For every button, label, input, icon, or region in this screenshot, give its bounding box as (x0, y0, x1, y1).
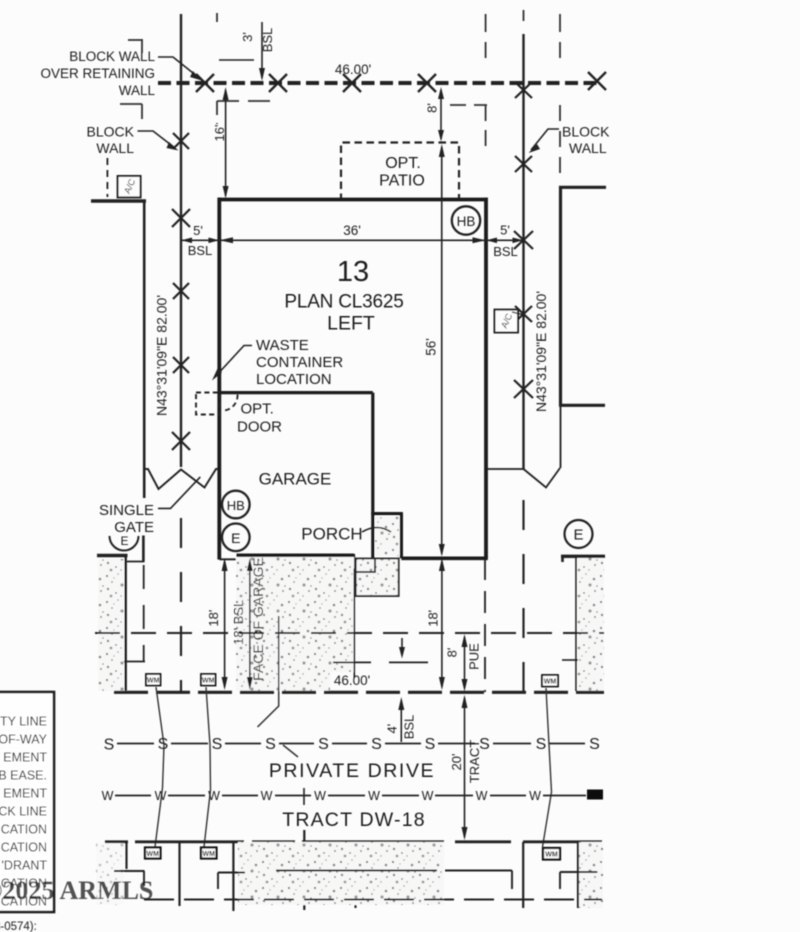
svg-text:S: S (265, 736, 276, 753)
A/C unit left (106, 158, 108, 197)
house outline lot 13 (218, 198, 488, 569)
svg-text:BLOCK: BLOCK (87, 124, 135, 140)
svg-text:CONTAINER: CONTAINER (256, 354, 343, 371)
svg-text:WM: WM (545, 852, 558, 859)
svg-text:S: S (589, 736, 600, 753)
svg-text:13: 13 (337, 256, 369, 288)
svg-text:S: S (212, 736, 223, 753)
5' BSL dimension right (486, 239, 524, 241)
far side inner walls (114, 871, 597, 890)
svg-text:46.00': 46.00' (335, 62, 371, 77)
svg-text:W: W (208, 789, 220, 803)
left neighbour house wall (91, 199, 146, 202)
svg-text:OPT.: OPT. (241, 401, 274, 418)
right block wall on lot line (522, 34, 524, 469)
svg-text:BSL: BSL (188, 243, 213, 258)
svg-text:CK LINE: CK LINE (0, 805, 47, 819)
water line W (115, 795, 586, 797)
A/C unit right (495, 310, 519, 333)
water meter service leaders (155, 687, 164, 847)
svg-text:DOOR: DOOR (237, 419, 282, 436)
18' dimension (garage) (224, 561, 226, 687)
hose bib circle top right (452, 206, 480, 234)
svg-text:W: W (261, 789, 273, 803)
svg-text:36': 36' (343, 223, 361, 238)
driveway east edge (353, 569, 355, 679)
svg-text:8-0574):: 8-0574): (0, 921, 37, 932)
corner tick dashes (right neighbour lot) (450, 14, 560, 180)
svg-text:OPT.: OPT. (385, 155, 421, 172)
svg-text:PORCH: PORCH (301, 525, 362, 544)
svg-text:WM: WM (146, 851, 159, 858)
lot line dashes below left gate (180, 518, 182, 691)
svg-text:N43°31'09"E 82.00': N43°31'09"E 82.00' (154, 295, 170, 416)
svg-text:WALL: WALL (569, 140, 607, 156)
legend box (clipped at left edge) (0, 692, 54, 912)
svg-text:EMENT: EMENT (3, 751, 47, 765)
svg-text:HB: HB (457, 214, 476, 229)
right neighbour house (559, 186, 562, 406)
far side lot walls (127, 830, 579, 911)
dashed projection of house face (right) (484, 558, 486, 692)
rear property line / block wall over retaining wall (158, 81, 601, 85)
entry stoop steps (356, 559, 399, 597)
gate / wall connection (right) (487, 468, 524, 470)
svg-text:PUE: PUE (467, 643, 482, 670)
porch outline (371, 512, 403, 515)
svg-text:CATION: CATION (1, 823, 47, 837)
sewer service leader (258, 616, 279, 727)
svg-text:E: E (573, 527, 583, 544)
8' dimension (patio to rear wall) (440, 90, 442, 139)
svg-text:GARAGE: GARAGE (259, 470, 332, 489)
left frontage wall (97, 554, 128, 557)
svg-text:W: W (529, 789, 541, 803)
svg-text:E: E (120, 534, 128, 548)
svg-text:S: S (425, 736, 436, 753)
svg-text:LEFT: LEFT (327, 313, 375, 335)
svg-text:EMENT: EMENT (3, 787, 47, 801)
water meter boxes at frontage (146, 674, 558, 687)
driveway concrete stipple (236, 557, 354, 691)
svg-text:WASTE: WASTE (256, 337, 309, 354)
front wall (401, 556, 487, 560)
svg-text:WM: WM (147, 678, 160, 685)
right sidewalk stipple strip (578, 558, 605, 691)
svg-text:LOCATION: LOCATION (256, 371, 332, 388)
E circle at garage (222, 524, 250, 552)
far side lots frontage line (105, 840, 602, 843)
svg-text:S: S (371, 736, 382, 753)
18' BSL dimension (249, 561, 251, 687)
door swing arc (224, 395, 238, 411)
E symbol circle (right) (565, 520, 593, 548)
svg-text:BSL: BSL (260, 28, 275, 53)
svg-text:BSL: BSL (493, 244, 518, 259)
hose bib circle at garage (222, 491, 250, 519)
svg-text:S: S (536, 736, 547, 753)
svg-text:8': 8' (445, 648, 460, 658)
svg-text:5': 5' (500, 223, 510, 238)
svg-text:S: S (318, 736, 329, 753)
svg-text:W: W (314, 789, 326, 803)
thrust block on water line (587, 790, 603, 800)
svg-text:WM: WM (544, 679, 557, 686)
svg-text:5': 5' (193, 223, 203, 238)
svg-text:46.00': 46.00' (334, 673, 370, 688)
svg-text:16': 16' (212, 125, 227, 142)
left block wall on lot line (180, 14, 182, 467)
garage face (237, 553, 355, 557)
5' BSL dimension left (181, 239, 219, 241)
svg-text:PATIO: PATIO (379, 173, 425, 190)
front lot line (114, 691, 604, 694)
svg-text:W: W (476, 789, 488, 803)
lot line dashes below right gate (522, 500, 524, 692)
right frontage wall (561, 555, 605, 558)
svg-text:BLOCK: BLOCK (562, 124, 610, 140)
svg-text:PLAN CL3625: PLAN CL3625 (284, 292, 403, 313)
svg-text:S: S (104, 737, 115, 754)
svg-text:SINGLE: SINGLE (99, 502, 154, 519)
optional door dashed box (196, 393, 219, 415)
svg-text:20': 20' (449, 754, 464, 771)
svg-text:FACE OF GARAGE: FACE OF GARAGE (250, 557, 266, 681)
svg-text:TRACT: TRACT (467, 740, 482, 783)
fence X marks on rear line (196, 72, 606, 92)
svg-text:S: S (158, 736, 169, 753)
svg-text:BSL: BSL (401, 715, 416, 740)
svg-text:W: W (422, 789, 434, 803)
36' dimension (219, 239, 486, 241)
X marks right wall (514, 82, 533, 398)
svg-text:18': 18' (206, 610, 221, 627)
leader to rear wall (158, 57, 198, 77)
svg-text:18': 18' (425, 610, 440, 627)
optional patio dashed outline (341, 143, 459, 202)
left sidewalk stipple strip (98, 559, 124, 691)
building setback dashed line (95, 632, 604, 634)
svg-text:8': 8' (425, 103, 440, 113)
svg-text:B EASE.: B EASE. (0, 769, 47, 783)
svg-text:WM: WM (202, 851, 215, 858)
garage east wall / porch west wall (371, 393, 374, 566)
8' PUE dimension (464, 637, 466, 688)
svg-text:W: W (102, 789, 114, 803)
svg-text:N43°31'09"E 82.00': N43°31'09"E 82.00' (533, 291, 549, 412)
tick on water line (303, 788, 305, 805)
svg-text:'DRANT: 'DRANT (2, 859, 48, 873)
svg-text:CATION: CATION (1, 841, 47, 855)
svg-text:W: W (155, 789, 167, 803)
svg-text:3': 3' (240, 32, 255, 42)
svg-text:4': 4' (384, 724, 399, 734)
20' tract dimension (464, 698, 466, 837)
svg-text:PRIVATE DRIVE: PRIVATE DRIVE (269, 760, 435, 782)
4' BSL dimension at street (400, 700, 402, 742)
svg-text:W: W (368, 789, 380, 803)
3' BSL dimension at top (261, 22, 263, 78)
svg-text:©2025 ARMLS: ©2025 ARMLS (0, 876, 153, 905)
svg-text:WALL: WALL (119, 83, 156, 98)
svg-text:OF-WAY: OF-WAY (0, 733, 48, 747)
E symbol with arc (left) (110, 536, 139, 551)
svg-text:TY LINE: TY LINE (0, 715, 47, 729)
svg-text:HB: HB (227, 498, 245, 513)
svg-text:56': 56' (424, 338, 439, 356)
svg-text:WM: WM (202, 678, 215, 685)
svg-text:E: E (231, 530, 240, 546)
corner tick dashes (left neighbour lot) (120, 13, 273, 124)
far side rear dashed line (144, 899, 602, 901)
svg-text:WALL: WALL (96, 140, 134, 156)
56' dimension (441, 147, 443, 554)
svg-text:18' BSL: 18' BSL (231, 600, 246, 645)
far side stipple (238, 842, 444, 905)
18' dimension (house) (441, 561, 443, 687)
dash above right block wall (523, 10, 525, 21)
curb detail with arrow (401, 638, 403, 655)
garage north wall (219, 391, 372, 394)
svg-text:OVER RETAINING: OVER RETAINING (40, 66, 155, 81)
single gate (left) zigzag (144, 469, 220, 489)
sewer line S (117, 743, 585, 745)
porch concrete stipple (375, 516, 400, 556)
16' dimension (225, 90, 227, 196)
X marks left wall (172, 133, 190, 450)
svg-text:TRACT DW-18: TRACT DW-18 (282, 809, 426, 831)
water meter boxes far side (145, 848, 560, 860)
